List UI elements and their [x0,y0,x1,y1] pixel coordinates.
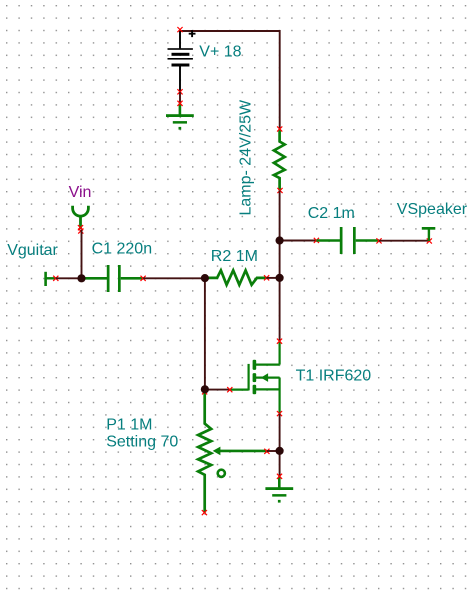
wire: wiper pin to junction [267,450,280,452]
svg-text:Vin: Vin [69,184,92,201]
capacitor C1 220n [82,265,146,292]
svg-text:C2 1m: C2 1m [308,205,355,222]
terminal VSpeaker [422,227,436,241]
ground (battery) [166,101,194,130]
svg-text:VSpeaker: VSpeaker [397,201,468,218]
wire: T1 source down through wiper junction to ground [279,414,281,477]
wire: battery + to top-right corner down to lamp [180,31,280,129]
wire: battery - to ground [179,92,181,104]
wire: Vguitar to C1 / Vin junction [56,277,82,279]
voltage pin Vin [73,206,89,234]
svg-text:V+ 18: V+ 18 [199,44,241,61]
potentiometer P1 1M (Setting 70) [198,389,269,515]
junction: C2 tap on drain net [276,236,284,244]
wire: C2 right pin to VSpeaker terminal [379,238,432,243]
junction: Vin tap [77,274,85,282]
wire: Vin pin down to junction [81,230,83,278]
svg-text:C1 220n: C1 220n [92,240,153,257]
svg-text:Vguitar: Vguitar [7,242,58,259]
svg-text:T1 IRF620: T1 IRF620 [296,368,372,385]
wire: junction to C2 left pin [280,238,319,243]
junction: R2 left / gate branch [201,274,209,282]
wire: R2 right pin to drain net [266,277,279,279]
lamp (24V/25W) drawn as resistor [274,129,285,190]
battery V1 (V+ 18) [168,27,196,94]
wire: R2 left junction down to gate junction [204,278,206,389]
transistor T1 IRF620 (N-MOSFET) [227,339,282,417]
resistor R2 1M [205,270,267,284]
svg-text:R2 1M: R2 1M [211,248,258,265]
wire: lamp bottom to T1 drain [279,191,281,342]
wire: C1 to R2 left junction [143,277,205,279]
junction: P1 wiper tap [276,447,284,455]
junction: gate / P1 top [201,385,209,393]
svg-text:Lamp- 24V/25W: Lamp- 24V/25W [238,99,255,216]
terminal Vguitar [44,272,58,286]
capacitor C2 1m [316,227,381,254]
wire: gate junction to T1 gate pin [205,389,230,391]
svg-text:Setting 70: Setting 70 [106,434,178,451]
svg-text:P1 1M: P1 1M [106,417,152,434]
ground (output stage) [265,474,293,503]
junction: R2 right tap on drain net [276,274,284,282]
